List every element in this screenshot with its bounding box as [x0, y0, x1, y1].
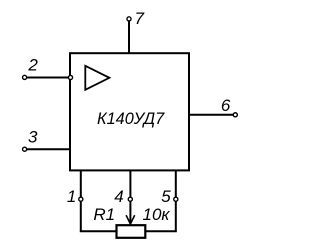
svg-text:2: 2	[27, 55, 38, 74]
wire pin 1 (offset null)	[80, 170, 82, 231]
svg-text:R1: R1	[93, 205, 115, 224]
wire pin 6 (output)	[189, 114, 233, 116]
svg-text:3: 3	[28, 128, 38, 147]
svg-text:7: 7	[135, 9, 145, 28]
junction pin 5	[174, 197, 178, 201]
svg-text:10к: 10к	[143, 205, 171, 224]
svg-text:К140УД7: К140УД7	[97, 110, 165, 128]
junction pin 2 at box edge	[68, 75, 72, 79]
terminal pin 2	[23, 75, 27, 79]
op-amp U1 body (DIP outline)	[70, 53, 189, 170]
wire pin 5 (offset null)	[175, 170, 177, 231]
wiper arrowhead	[126, 215, 135, 224]
wire pin 4 (wiper shaft)	[129, 170, 131, 223]
svg-text:6: 6	[221, 96, 231, 115]
wire pin 3 (non-inverting input)	[27, 148, 70, 150]
terminal pin 7	[127, 17, 131, 21]
op-amp triangle symbol	[85, 66, 109, 90]
svg-text:5: 5	[161, 187, 171, 206]
svg-text:4: 4	[114, 187, 123, 206]
svg-text:1: 1	[67, 187, 76, 206]
wire pin 2 (inverting input)	[27, 77, 70, 79]
junction pin 4	[128, 197, 132, 201]
wire R1 right to pin5	[145, 230, 177, 232]
terminal pin 6	[233, 113, 237, 117]
potentiometer R1 body	[117, 225, 146, 238]
junction pin 1	[79, 197, 83, 201]
wire pin1 to R1 left	[80, 230, 117, 232]
wire pin 7 (top supply)	[128, 21, 130, 53]
terminal pin 3	[23, 147, 27, 151]
